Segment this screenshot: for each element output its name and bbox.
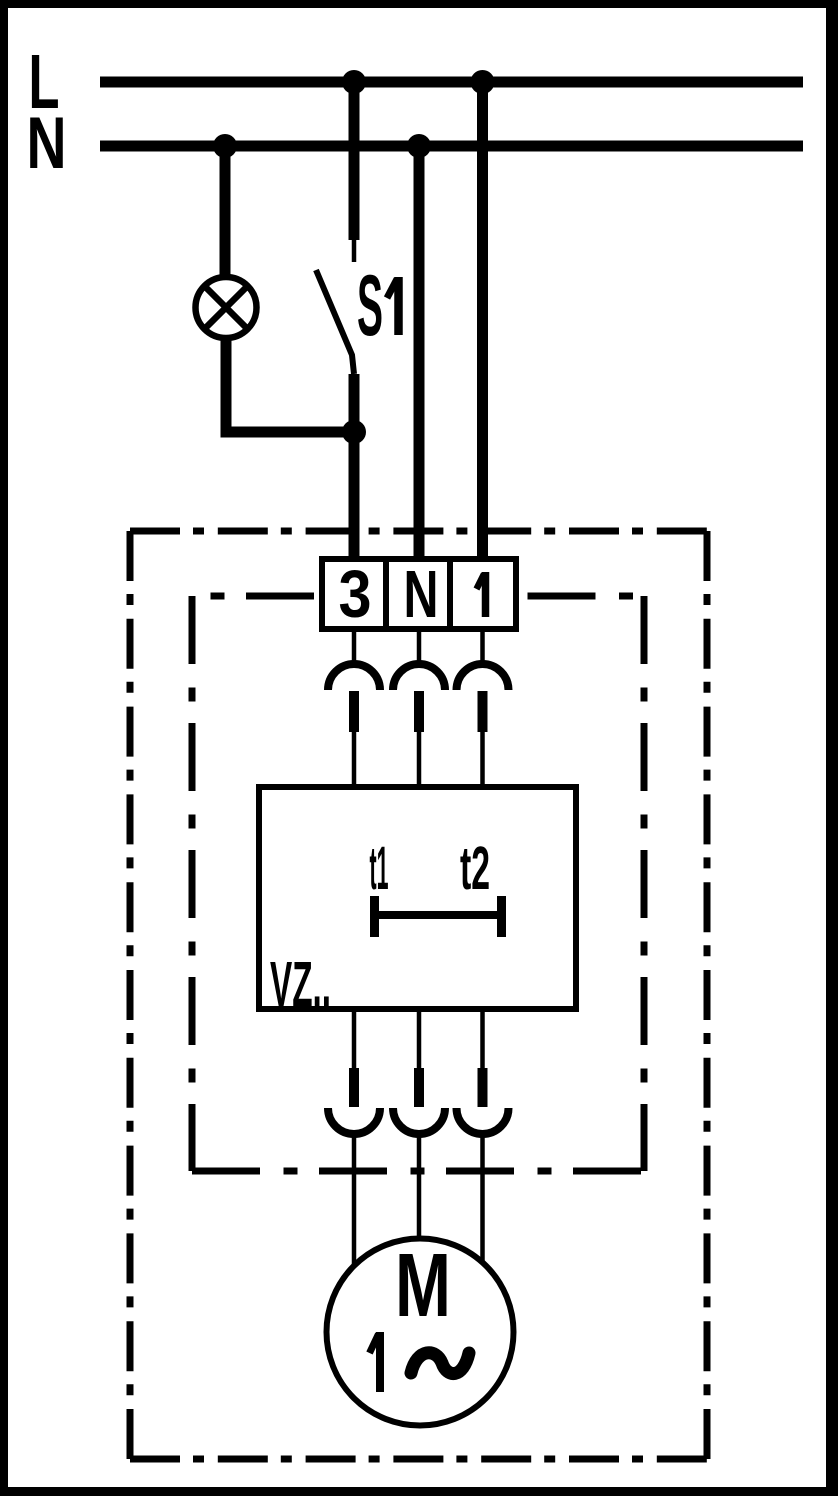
connector X1 pin (3) (349, 691, 359, 732)
motor AC tilde (411, 1353, 469, 1374)
motor M1 circle (327, 1239, 514, 1426)
svg-text:N: N (27, 103, 67, 184)
wire lamp to junction (226, 340, 354, 432)
junction on N at x=419 (407, 134, 431, 158)
lamp H1 (196, 277, 257, 338)
switch S1 fixed contact stub (352, 240, 357, 262)
svg-text:3: 3 (339, 557, 372, 632)
terminal block cell N (386, 559, 450, 629)
timer module VZ.. box (259, 787, 576, 1009)
terminal label 1 (482, 572, 490, 617)
switch S1 blade (316, 270, 354, 374)
svg-text:t2: t2 (460, 834, 490, 902)
timer bar t1-t2 (375, 896, 502, 937)
junction on L at x=482 (471, 70, 495, 94)
svg-text:M: M (395, 1236, 451, 1336)
connector X2 socket (1) (457, 1108, 509, 1134)
terminal block cell 3 (322, 559, 386, 629)
connector X2 pin (3) (352, 1009, 357, 1068)
wire L bus to terminal 1 (477, 82, 488, 559)
outer dash-dot enclosure (130, 531, 707, 1459)
motor label 1 (376, 1332, 384, 1392)
wire N bus to terminal N (414, 146, 425, 559)
junction on L at x=353 (342, 70, 366, 94)
svg-text:S: S (357, 258, 383, 354)
svg-text:t1: t1 (370, 834, 389, 902)
connector X1 socket (N) (417, 629, 422, 661)
junction below switch (342, 420, 366, 444)
connector X2 socket (N) (393, 1108, 445, 1134)
wire N to lamp (220, 146, 231, 276)
terminal block cell 1 (450, 559, 516, 629)
junction on N at x=225 (213, 134, 237, 158)
connector X2 pin (1) (480, 1009, 485, 1068)
wire L bus (100, 77, 803, 88)
wire N bus (100, 141, 803, 152)
connector X1 pin (1) (478, 691, 488, 732)
svg-text:N: N (404, 557, 439, 632)
wire switch to terminal 3 (349, 374, 360, 559)
svg-text:VZ..: VZ.. (270, 948, 331, 1020)
connector X1 pin (N) (414, 691, 424, 732)
connector X2 pin (N) (417, 1009, 422, 1068)
inner dash-dot enclosure (192, 596, 644, 1171)
wire L to switch (349, 82, 360, 240)
connector X2 socket (3) (328, 1108, 380, 1134)
connector X1 socket (3) (352, 629, 357, 661)
connector X1 socket (1) (480, 629, 485, 661)
